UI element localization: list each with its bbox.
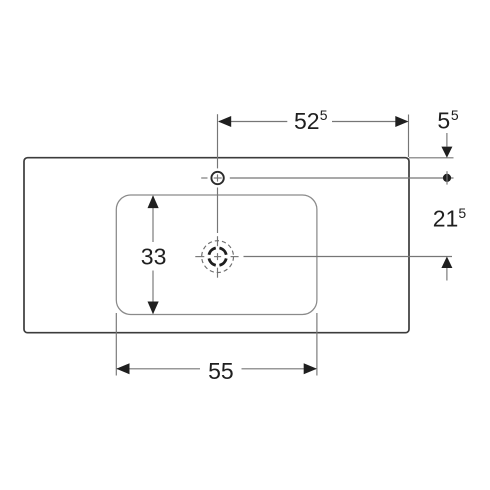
dimension 55: extension line right	[316, 313, 318, 376]
drain bold circle (arcs with N/S/E/W gaps)	[209, 248, 226, 265]
svg-text:55: 55	[208, 358, 234, 384]
dimension 21.5: tick through dot	[446, 171, 448, 184]
dimension 5.5: down arrow	[441, 147, 452, 158]
dimension 5.5: top edge reference line	[409, 157, 454, 159]
dimension 52.5: right arrow	[395, 116, 408, 127]
dimension 21.5: arrow tail line	[446, 268, 448, 281]
svg-text:5: 5	[437, 107, 450, 133]
drain horizontal centerline	[195, 256, 238, 258]
dimension 52.5: extension line right	[408, 115, 410, 158]
dimension 21.5: up arrow	[441, 257, 452, 269]
dimension 21.5: dot terminator at faucet level	[443, 174, 451, 182]
svg-text:5: 5	[451, 107, 459, 123]
drain-to-right reference line (21.5 dim lower reference)	[244, 256, 453, 258]
faucet hole	[211, 172, 223, 184]
dimension 5.5: arrow tail line	[446, 133, 448, 147]
dimension 55: left arrow	[116, 363, 129, 374]
dimension 55: extension line left	[115, 313, 117, 376]
svg-text:5: 5	[458, 205, 466, 221]
drain dashed circle	[202, 241, 234, 273]
dimension 33: top arrow	[148, 195, 159, 208]
svg-text:5: 5	[320, 107, 328, 123]
svg-text:21: 21	[433, 206, 459, 232]
dimension 33: bottom arrow	[148, 302, 159, 315]
dimension 52.5: left arrow	[218, 116, 231, 127]
dimension 55: right arrow	[304, 363, 317, 374]
svg-text:52: 52	[294, 108, 320, 134]
dimension 33: dimension line	[152, 196, 154, 242]
basin outer outline	[24, 158, 409, 333]
bowl inner outline	[116, 195, 317, 315]
dimension 52.5: dimension line	[219, 121, 287, 123]
svg-text:33: 33	[141, 243, 167, 269]
vertical centerline through faucet hole and drain	[217, 114, 219, 278]
dimension 55: dimension line	[117, 368, 200, 370]
horizontal centerline through faucet hole (to 5.5 dim dot)	[201, 177, 453, 179]
